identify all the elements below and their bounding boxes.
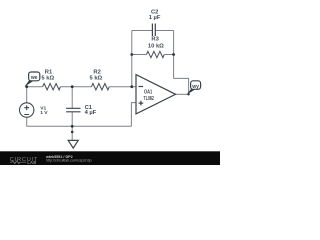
resistor R3 [146, 51, 164, 57]
svg-text:10 kΩ: 10 kΩ [148, 43, 164, 49]
svg-text:1 V: 1 V [40, 110, 48, 116]
svg-text:LAB: LAB [27, 160, 36, 165]
wire R3 left lead [132, 54, 147, 56]
wire bottom ground rail [27, 125, 132, 127]
svg-text:1 µF: 1 µF [149, 15, 161, 21]
node junction R3 right / feedback [172, 53, 175, 56]
wire V1 bottom lead [26, 117, 28, 126]
node ground anchor dot [71, 131, 74, 134]
wire C1 top branch [71, 87, 73, 109]
wire plus-input riser [131, 103, 136, 127]
footer CircuitLab logo [10, 157, 38, 165]
wire R3 right lead [165, 54, 174, 56]
wire ground stub [71, 126, 73, 140]
node output corner [187, 93, 189, 95]
wire feedback left vertical [131, 31, 133, 87]
capacitor C2 [152, 24, 155, 37]
footer logo zigzag [10, 161, 27, 164]
footer bar [0, 151, 220, 165]
node junction feedback left / R3 [130, 53, 133, 56]
node junction R1/R2/C1 [71, 85, 74, 88]
capacitor C1 [66, 108, 80, 112]
wire C1 bottom branch [71, 112, 73, 126]
node junction C1 / ground rail [71, 125, 74, 128]
node junction R2/feedback [130, 85, 133, 88]
svg-text:5 kΩ: 5 kΩ [41, 75, 54, 81]
wire feedback right vertical [173, 31, 175, 79]
op-amp minus marker [139, 86, 144, 88]
svg-text:http://circuitlab.com/csp2n3p: http://circuitlab.com/csp2n3p [46, 159, 92, 163]
wire input main horizontal [27, 86, 136, 88]
wire feedback top with C2 gap [132, 30, 174, 32]
svg-text:5 kΩ: 5 kΩ [90, 75, 103, 81]
voltage source V1 [20, 103, 34, 117]
svg-text:OA1: OA1 [144, 90, 152, 96]
svg-text:we: we [30, 75, 38, 81]
resistor R1 [43, 84, 61, 90]
ground symbol [68, 140, 78, 148]
wire V1 top lead [26, 87, 28, 103]
wire feedback jog to output [174, 78, 189, 94]
svg-text:R3: R3 [151, 37, 159, 43]
resistor R2 [91, 84, 109, 90]
svg-text:4 µF: 4 µF [85, 110, 97, 116]
svg-text:TL082: TL082 [144, 96, 154, 102]
flag we [25, 72, 40, 87]
flag wy [187, 81, 201, 95]
wire output lead [176, 93, 189, 95]
op-amp U1 triangle [136, 75, 176, 114]
node junction V1/R1/we [25, 85, 28, 88]
svg-text:wy: wy [191, 84, 199, 90]
op-amp plus marker [139, 101, 144, 106]
